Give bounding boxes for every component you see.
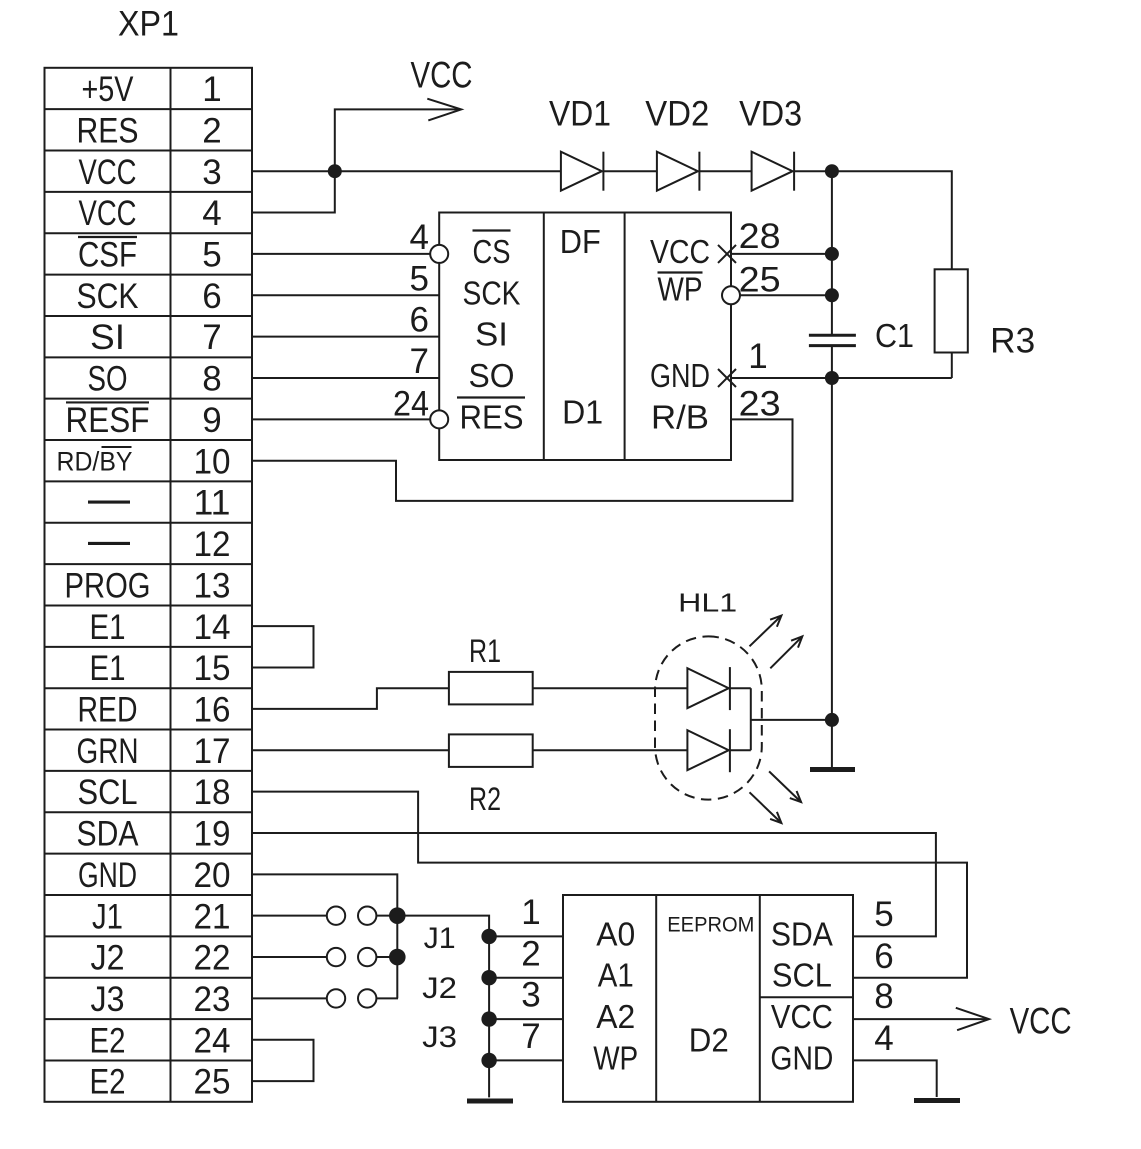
XP1 pin 9 row: RESF / 9 xyxy=(66,401,222,440)
D1 pin number 28 xyxy=(739,217,781,256)
svg-text:E2: E2 xyxy=(90,1063,126,1102)
svg-text:R/B: R/B xyxy=(651,398,709,435)
XP1 pin 10 row: RD/BY / 10 xyxy=(57,442,231,481)
D2 pin label A2 xyxy=(596,998,635,1035)
svg-text:A0: A0 xyxy=(596,915,635,952)
wire node to R3 top xyxy=(832,171,952,269)
jumper J3 contacts (XP1.23) xyxy=(252,989,398,1007)
D2 pin number 2 xyxy=(521,934,540,973)
label J3 xyxy=(422,1021,457,1054)
wire D1 WP pin25 to bus xyxy=(740,294,832,296)
ground symbol (jumper bus) xyxy=(467,1099,513,1104)
VCC arrow (top) xyxy=(427,99,461,121)
svg-text:1: 1 xyxy=(748,337,767,376)
label HL1 xyxy=(678,588,737,618)
wire node to ground xyxy=(831,720,833,768)
svg-text:8: 8 xyxy=(874,977,893,1016)
svg-text:D2: D2 xyxy=(689,1022,729,1059)
svg-text:25: 25 xyxy=(194,1063,231,1102)
connector XP1 body (25-pin table) xyxy=(45,68,253,1102)
svg-text:+5V: +5V xyxy=(82,70,135,109)
svg-text:VCC: VCC xyxy=(771,998,833,1035)
wire D1 VCC pin28 to bus xyxy=(731,253,832,255)
label J1 xyxy=(424,922,456,955)
label R1 xyxy=(469,633,501,669)
jumper J2 closed dot xyxy=(389,949,406,966)
svg-text:J3: J3 xyxy=(422,1021,457,1054)
D1 pin1 no-connect X xyxy=(718,369,736,387)
svg-text:GND: GND xyxy=(650,357,710,394)
ground symbol (D2) xyxy=(914,1098,960,1103)
svg-text:2: 2 xyxy=(202,111,221,150)
svg-text:J1: J1 xyxy=(424,922,456,955)
label R3 xyxy=(990,322,1035,361)
XP1 pin 11 row: NC / 11 xyxy=(88,484,231,523)
wire XP1.19 SDA to D2 xyxy=(252,833,936,936)
wire E2 bridge pins 24-25 xyxy=(252,1040,314,1081)
svg-text:J2: J2 xyxy=(91,939,125,978)
ground symbol (HL1) xyxy=(810,767,855,772)
wire J1 row to address bus xyxy=(397,916,489,1098)
svg-text:EEPROM: EEPROM xyxy=(667,914,754,937)
svg-text:6: 6 xyxy=(410,301,429,340)
D1 pin label SO xyxy=(469,357,515,394)
svg-text:VD1: VD1 xyxy=(549,95,611,134)
wire vertical VCC bus (node to C1) xyxy=(831,171,833,334)
svg-text:17: 17 xyxy=(194,732,231,771)
HL1 cathode join wires xyxy=(729,688,751,750)
XP1 pin 19 row: SDA / 19 xyxy=(77,815,231,854)
svg-text:8: 8 xyxy=(202,360,221,399)
XP1 pin 18 row: SCL / 18 xyxy=(78,773,231,812)
svg-text:SI: SI xyxy=(475,316,508,353)
svg-text:SDA: SDA xyxy=(771,915,833,952)
svg-text:18: 18 xyxy=(194,773,231,812)
svg-text:11: 11 xyxy=(194,484,231,523)
wire XP1.5 to D1 CS xyxy=(252,253,430,255)
svg-text:16: 16 xyxy=(194,690,231,729)
XP1 pin 25 row: E2 / 25 xyxy=(90,1063,231,1102)
svg-text:RESF: RESF xyxy=(66,401,150,440)
resistor R2 xyxy=(449,734,533,767)
XP1 pin 12 row: NC / 12 xyxy=(88,525,231,564)
svg-text:WP: WP xyxy=(658,270,703,307)
svg-text:4: 4 xyxy=(874,1019,893,1058)
diode VD3 xyxy=(752,152,795,191)
wire C1 bottom to GND row xyxy=(831,347,833,378)
D1 pin number 24 xyxy=(393,384,429,423)
IC D1 body xyxy=(439,213,731,461)
wire VD2-VD3 xyxy=(699,170,751,172)
svg-text:SDA: SDA xyxy=(77,815,140,854)
XP1 pin 24 row: E2 / 24 xyxy=(90,1021,231,1060)
svg-text:10: 10 xyxy=(194,442,231,481)
D1 pin number 1 xyxy=(748,337,767,376)
svg-text:2: 2 xyxy=(521,934,540,973)
wire XP1.18 SCL to D2 xyxy=(252,792,967,978)
D1 pin number 6 xyxy=(410,301,429,340)
XP1 pin 2 row: RES / 2 xyxy=(77,111,222,150)
XP1 pin 6 row: SCK / 6 xyxy=(77,277,222,316)
svg-text:J2: J2 xyxy=(422,972,457,1005)
D2 designator D2 xyxy=(689,1022,729,1059)
svg-text:4: 4 xyxy=(202,194,221,233)
svg-text:R3: R3 xyxy=(990,322,1035,361)
svg-text:19: 19 xyxy=(194,815,231,854)
D2 pin label SCL xyxy=(772,957,832,994)
XP1 pin 7 row: SI / 7 xyxy=(90,318,222,357)
junction dot WP xyxy=(481,1053,496,1068)
svg-text:SO: SO xyxy=(88,360,128,399)
svg-text:VD2: VD2 xyxy=(645,95,709,134)
D1 pin label R/B xyxy=(651,398,709,435)
D1 RES inversion circle pin 24 xyxy=(430,410,448,428)
svg-text:RES: RES xyxy=(460,398,524,435)
wire R2 to HL1 anode xyxy=(533,749,688,751)
wire XP1.16 RED to R1 xyxy=(252,688,449,709)
XP1 pin 4 row: VCC / 4 xyxy=(79,194,222,233)
svg-text:VCC: VCC xyxy=(79,153,137,192)
D1 pin label RES xyxy=(457,398,525,436)
svg-text:7: 7 xyxy=(202,318,221,357)
XP1 pin 17 row: GRN / 17 xyxy=(77,732,231,771)
D1 pin label GND xyxy=(650,357,710,394)
svg-text:24: 24 xyxy=(194,1021,231,1060)
IC D2 body xyxy=(563,895,853,1102)
D1 WP inversion circle pin 25 xyxy=(722,286,740,304)
svg-text:VCC: VCC xyxy=(79,194,137,233)
wire HL1 common to ground node xyxy=(751,719,832,721)
wire D2 GND pin4 to ground xyxy=(853,1060,937,1097)
D1 pin label SI xyxy=(475,316,508,353)
svg-text:HL1: HL1 xyxy=(678,588,737,618)
svg-text:DF: DF xyxy=(560,223,601,260)
wire pin4 to VCC arrow riser xyxy=(252,109,459,212)
D1 pin label CS xyxy=(473,231,511,270)
svg-text:D1: D1 xyxy=(562,394,603,431)
wire bus to D2 A0 xyxy=(489,935,563,937)
XP1 pin 15 row: E1 / 15 xyxy=(90,649,231,688)
D2 pin number 8 xyxy=(874,977,893,1016)
XP1 pin 14 row: E1 / 14 xyxy=(90,608,231,647)
wire VD3 to node xyxy=(794,170,832,172)
net label VCC (bottom) xyxy=(1010,1001,1072,1042)
svg-text:VD3: VD3 xyxy=(739,95,802,134)
D1 pin number 7 xyxy=(410,342,429,381)
D2 pin label A0 xyxy=(596,915,635,952)
jumper J1 closed dot xyxy=(389,907,406,924)
XP1 pin 20 row: GND / 20 xyxy=(78,856,231,895)
wire XP1.9 to D1 RES xyxy=(252,418,430,420)
svg-text:RD/BY: RD/BY xyxy=(57,447,133,477)
junction dot D1 pin28 xyxy=(825,247,839,261)
D2 pin label GND xyxy=(770,1039,833,1076)
D2 pin number 5 xyxy=(874,895,893,934)
D2 pin number 6 xyxy=(874,937,893,976)
LED HL1 outline xyxy=(655,636,762,799)
XP1 pin 8 row: SO / 8 xyxy=(88,360,222,399)
wire XP1.20 GND to jumper bus xyxy=(252,874,397,998)
svg-text:7: 7 xyxy=(410,342,429,381)
junction dot at VD3 cathode xyxy=(825,164,839,178)
jumper J1 contacts (XP1.21) xyxy=(252,906,398,924)
D2 pin number 4 xyxy=(874,1019,893,1058)
svg-text:4: 4 xyxy=(410,218,429,257)
XP1 pin 1 row: +5V / 1 xyxy=(82,70,222,109)
svg-text:SCL: SCL xyxy=(78,773,138,812)
wire bus to D2 WP xyxy=(489,1059,563,1061)
svg-text:E1: E1 xyxy=(90,608,126,647)
svg-text:E1: E1 xyxy=(90,649,126,688)
label VD1 xyxy=(549,95,611,134)
wire XP1.6 to D1 SCK xyxy=(252,294,439,296)
net label VCC (top) xyxy=(411,55,473,96)
junction dot A0 xyxy=(481,929,496,944)
svg-text:J3: J3 xyxy=(91,980,125,1019)
svg-text:15: 15 xyxy=(194,649,231,688)
junction dot A2 xyxy=(481,1011,496,1026)
svg-text:3: 3 xyxy=(521,976,540,1015)
svg-text:WP: WP xyxy=(593,1039,638,1076)
XP1 pin 5 row: CSF / 5 xyxy=(78,236,222,275)
svg-text:23: 23 xyxy=(739,384,781,423)
XP1 pin 13 row: PROG / 13 xyxy=(65,566,231,605)
D1 pin number 5 xyxy=(410,259,429,298)
junction dot pin3/pin4 vcc xyxy=(328,164,342,178)
svg-text:SCK: SCK xyxy=(77,277,139,316)
wire XP1.17 GRN to R2 xyxy=(252,749,449,751)
D1 pin number 25 xyxy=(739,260,781,299)
wire R1 to HL1 anode xyxy=(533,687,688,689)
D1 pin number 23 xyxy=(739,384,781,423)
wire bus to D2 A2 xyxy=(489,1018,563,1020)
svg-text:PROG: PROG xyxy=(65,566,151,605)
wire pin3 bus to diodes xyxy=(252,170,561,172)
HL1 LED diode B (green) xyxy=(687,729,730,772)
HL1 light arrow 3 xyxy=(769,771,801,802)
resistor R1 xyxy=(449,672,533,705)
svg-text:SI: SI xyxy=(90,318,125,357)
junction dot D1 pin25 xyxy=(825,288,839,302)
svg-text:C1: C1 xyxy=(875,317,914,354)
D1 CS inversion circle pin 4 xyxy=(430,245,448,263)
svg-text:XP1: XP1 xyxy=(118,5,179,44)
svg-text:R1: R1 xyxy=(469,633,501,669)
svg-text:SCK: SCK xyxy=(463,274,521,311)
svg-text:6: 6 xyxy=(202,277,221,316)
label R2 xyxy=(469,781,501,817)
D2 pin label SDA xyxy=(771,915,833,952)
resistor R3 xyxy=(935,269,968,352)
svg-text:12: 12 xyxy=(194,525,231,564)
wire D2 VCC pin8 xyxy=(853,1018,987,1020)
svg-text:3: 3 xyxy=(202,153,221,192)
diode VD1 xyxy=(561,152,604,191)
svg-text:SCL: SCL xyxy=(772,957,832,994)
wire D1 GND pin1 row xyxy=(731,377,952,379)
wire XP1.7 to D1 SI xyxy=(252,336,439,338)
svg-text:R2: R2 xyxy=(469,781,501,817)
D1 pin label SCK xyxy=(463,274,521,311)
svg-text:E2: E2 xyxy=(90,1021,126,1060)
svg-text:VCC: VCC xyxy=(650,233,710,270)
connector XP1 reference label xyxy=(118,5,179,44)
svg-text:GRN: GRN xyxy=(77,732,139,771)
D1 label DF xyxy=(560,223,601,260)
svg-text:13: 13 xyxy=(194,566,231,605)
wire VD1-VD2 xyxy=(603,170,657,172)
XP1 pin 3 row: VCC / 3 xyxy=(79,153,222,192)
svg-text:9: 9 xyxy=(202,401,221,440)
svg-text:J1: J1 xyxy=(92,897,123,936)
HL1 light arrow 4 xyxy=(750,792,782,823)
svg-text:24: 24 xyxy=(393,384,429,423)
junction dot HL1 ground node xyxy=(825,713,839,727)
junction dot GND row xyxy=(825,371,839,385)
svg-text:CSF: CSF xyxy=(78,236,137,275)
junction dot A1 xyxy=(481,970,496,985)
XP1 pin 23 row: J3 / 23 xyxy=(91,980,231,1019)
XP1 pin 22 row: J2 / 22 xyxy=(91,939,231,978)
HL1 light arrow 1 xyxy=(750,616,782,647)
svg-text:5: 5 xyxy=(202,236,221,275)
svg-text:RES: RES xyxy=(77,111,139,150)
D2 label EEPROM xyxy=(667,914,754,937)
capacitor C1 xyxy=(809,335,856,345)
svg-text:20: 20 xyxy=(194,856,231,895)
wire bus to D2 A1 xyxy=(489,977,563,979)
svg-text:CS: CS xyxy=(473,233,511,270)
wire E1 bridge pins 14-15 xyxy=(252,626,314,667)
HL1 light arrow 2 xyxy=(770,636,802,668)
svg-text:RED: RED xyxy=(78,690,138,729)
svg-text:25: 25 xyxy=(739,260,781,299)
D1 designator D1 xyxy=(562,394,603,431)
svg-text:23: 23 xyxy=(194,980,231,1019)
svg-text:21: 21 xyxy=(194,897,231,936)
D2 pin label WP xyxy=(593,1039,638,1076)
wire XP1.8 to D1 SO xyxy=(252,377,439,379)
svg-text:5: 5 xyxy=(874,895,893,934)
wire R3 bottom xyxy=(951,353,953,379)
diode VD2 xyxy=(657,152,700,191)
D2 pin label A1 xyxy=(598,957,634,994)
svg-text:A1: A1 xyxy=(598,957,634,994)
XP1 pin 16 row: RED / 16 xyxy=(78,690,231,729)
D1 pin label WP xyxy=(658,270,703,307)
svg-text:A2: A2 xyxy=(596,998,635,1035)
svg-text:14: 14 xyxy=(194,608,231,647)
svg-text:28: 28 xyxy=(739,217,781,256)
svg-text:GND: GND xyxy=(770,1039,833,1076)
svg-text:5: 5 xyxy=(410,259,429,298)
D2 pin number 7 xyxy=(521,1017,540,1056)
svg-text:SO: SO xyxy=(469,357,515,394)
jumper J2 contacts (XP1.22) xyxy=(252,948,398,966)
D1 pin number 4 xyxy=(410,218,429,257)
svg-text:VCC: VCC xyxy=(1010,1001,1072,1042)
svg-text:7: 7 xyxy=(521,1017,540,1056)
svg-text:22: 22 xyxy=(194,939,231,978)
D2 pin number 1 xyxy=(521,893,540,932)
HL1 LED diode A (red) xyxy=(687,667,730,710)
label VD2 xyxy=(645,95,709,134)
label VD3 xyxy=(739,95,802,134)
D1 pin28 no-connect X xyxy=(718,245,736,263)
svg-text:1: 1 xyxy=(202,70,221,109)
svg-text:6: 6 xyxy=(874,937,893,976)
svg-text:GND: GND xyxy=(78,856,137,895)
svg-text:1: 1 xyxy=(521,893,540,932)
D2 pin number 3 xyxy=(521,976,540,1015)
wire D1 R/B pin23 to XP1.10 xyxy=(252,419,793,501)
label J2 xyxy=(422,972,457,1005)
XP1 pin 21 row: J1 / 21 xyxy=(92,897,231,936)
D1 pin label VCC xyxy=(650,233,710,270)
svg-text:VCC: VCC xyxy=(411,55,473,96)
label C1 xyxy=(875,317,914,354)
D2 pin label VCC xyxy=(771,998,833,1035)
VCC arrow (bottom) xyxy=(956,1008,989,1030)
wire VCC bus down to HL1 node xyxy=(831,378,833,720)
